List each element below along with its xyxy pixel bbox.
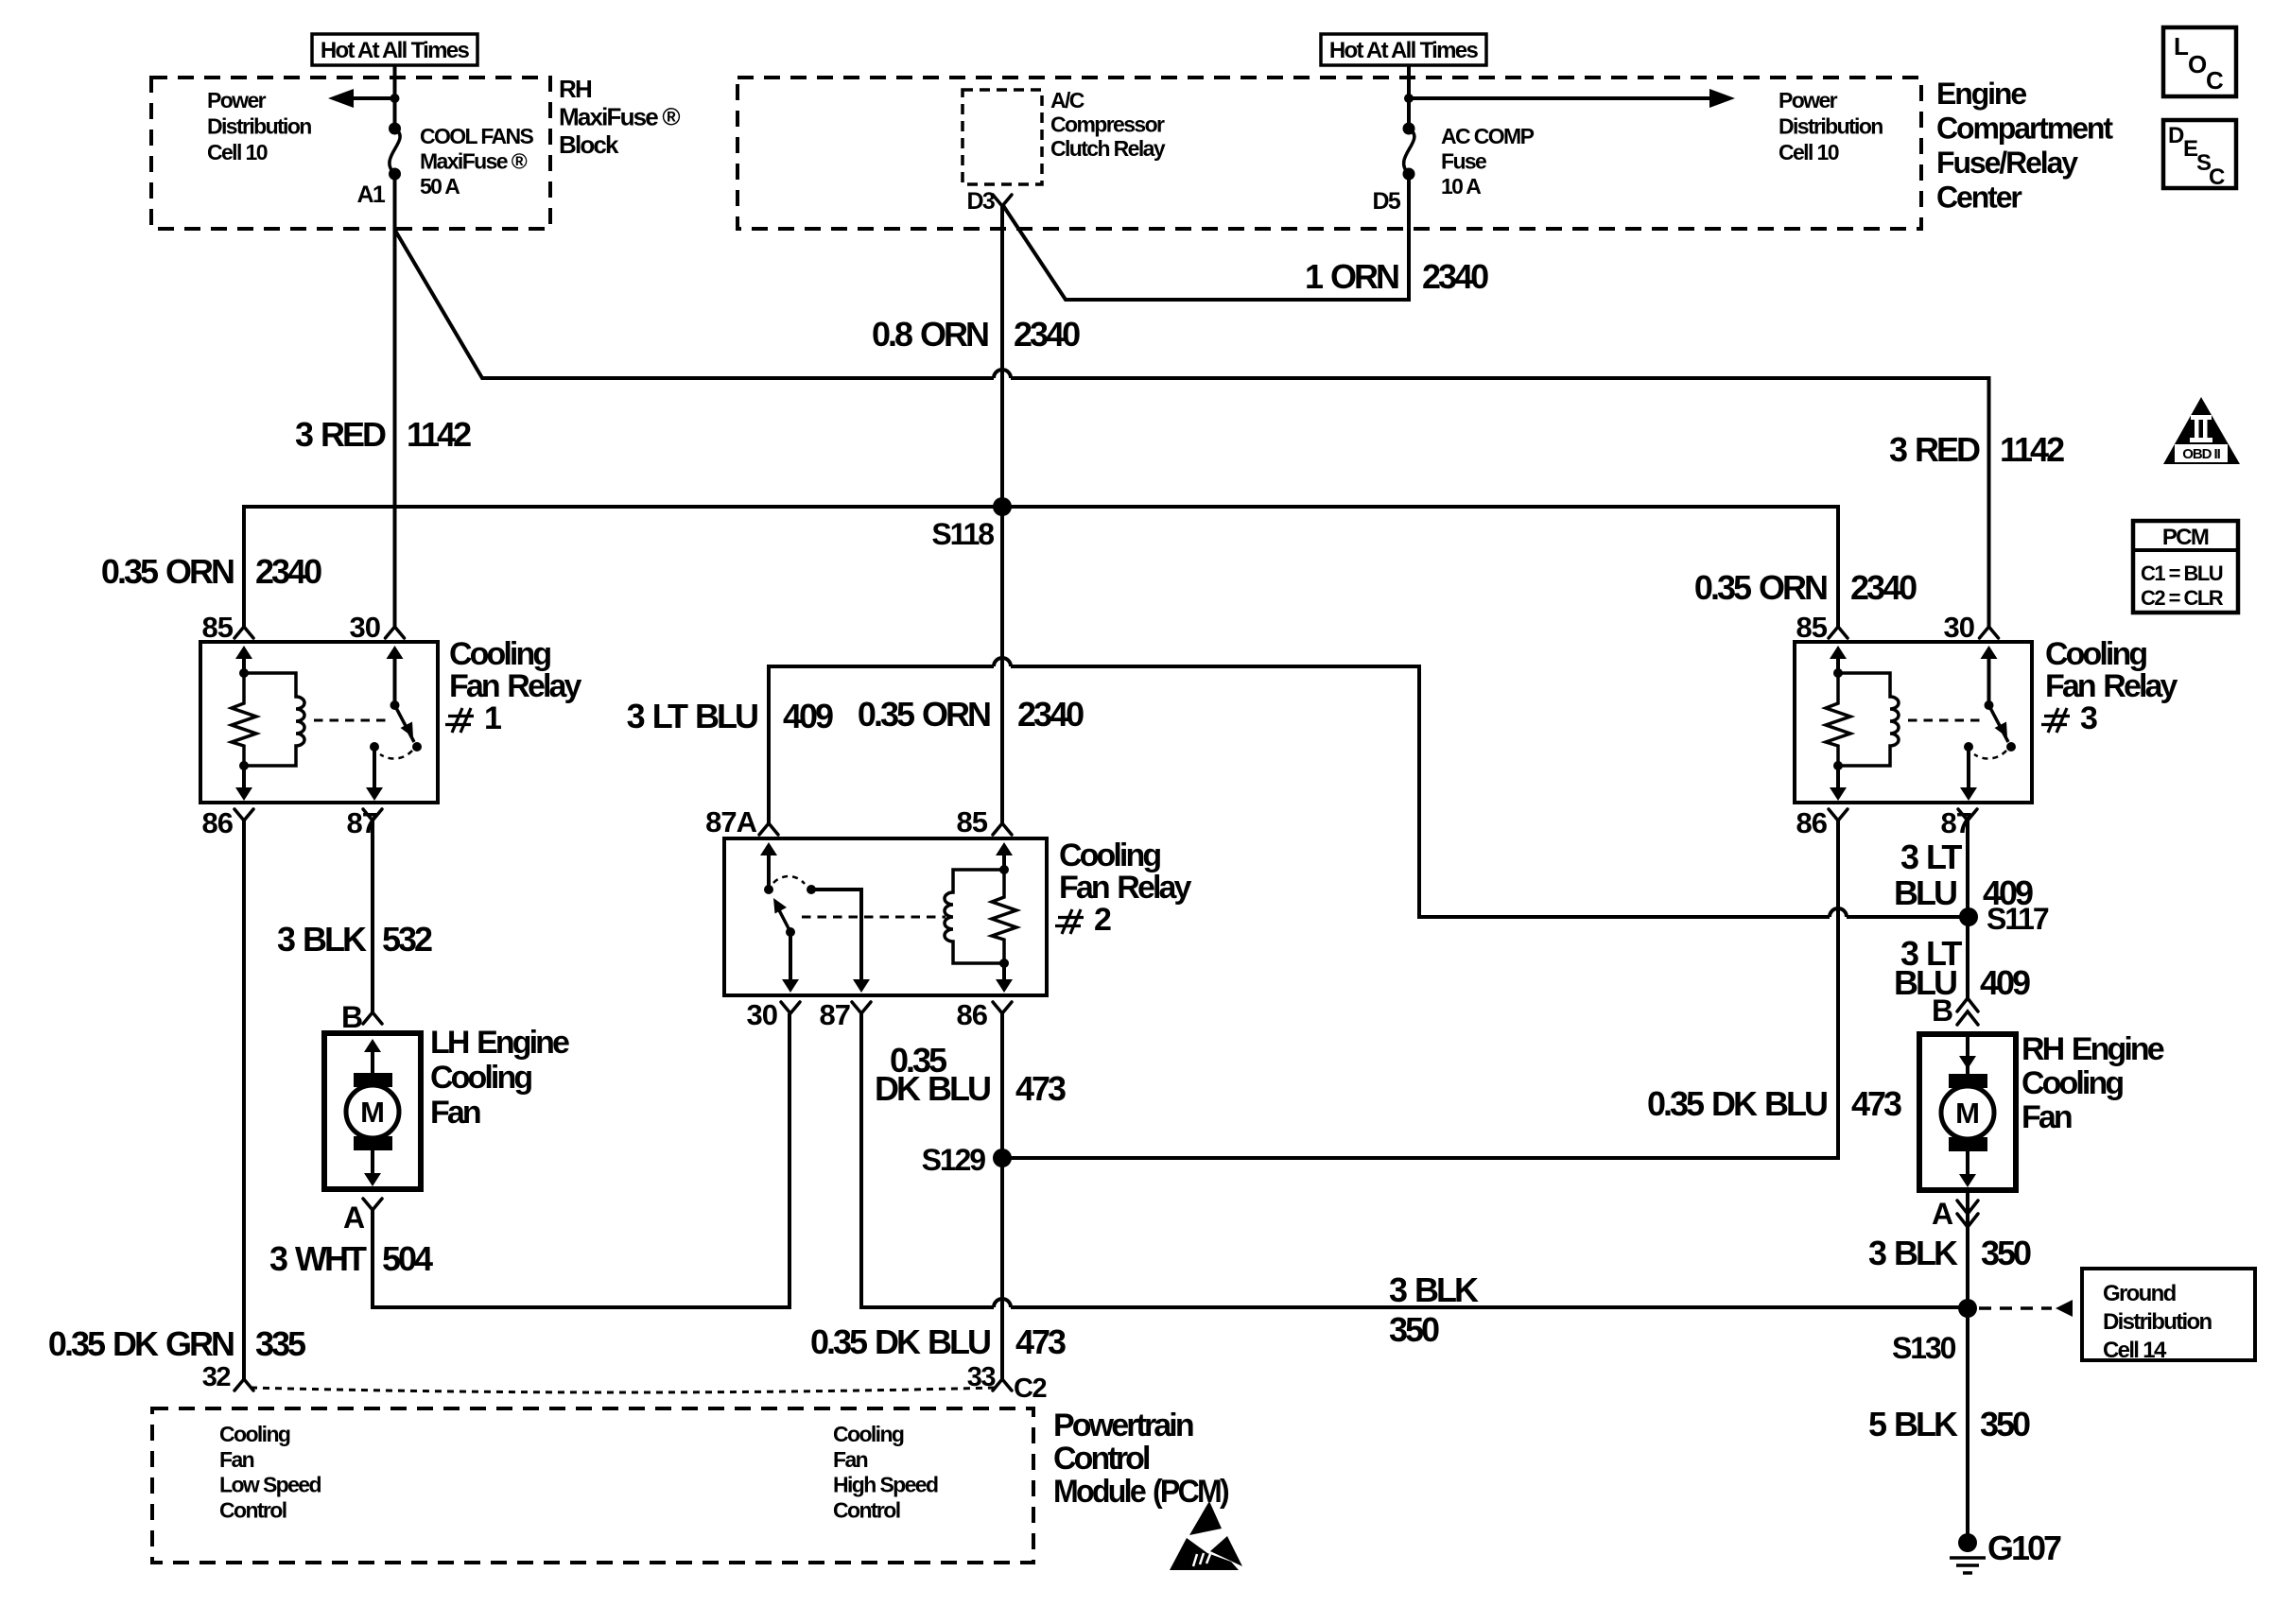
svg-text:350: 350 — [1980, 1405, 2030, 1443]
svg-text:0.35 DK BLU: 0.35 DK BLU — [1647, 1084, 1827, 1123]
wire: 1 ORN 2340 (D5 to D3) — [1002, 174, 1409, 300]
K2 switch common arrow up (87A) — [767, 854, 771, 890]
wire: 5 BLK 350 (S130 to G107) — [1966, 1308, 1969, 1538]
svg-text:3 BLK: 3 BLK — [277, 920, 367, 959]
relay K2: Cooling Fan Relay #2 — [705, 805, 1047, 1031]
svg-text:3 BLK: 3 BLK — [1868, 1234, 1958, 1272]
K1 coil ground arrow down — [242, 766, 246, 789]
svg-text:C: C — [2209, 164, 2225, 190]
K1 contact 87 arrow down — [370, 742, 379, 752]
svg-text:473: 473 — [1015, 1069, 1066, 1108]
motor M2: RH Engine Cooling Fan — [1919, 1034, 2016, 1190]
wire: 3 RED 1142 (A1 down to relay 1 pin 30) — [393, 174, 397, 627]
K1 switch blade — [395, 705, 415, 742]
node S129 — [993, 1149, 1012, 1167]
svg-text:BLU: BLU — [1894, 873, 1956, 912]
K3 pin fork 87 — [1958, 809, 1977, 821]
svg-text:3 LT: 3 LT — [1900, 838, 1962, 876]
svg-text:S118: S118 — [931, 517, 994, 551]
svg-text:1142: 1142 — [2000, 430, 2064, 469]
wire: 0.35 DK BLU 473 (relay2 86 to PCM 33, through S129) — [1000, 1013, 1004, 1379]
svg-text:G107: G107 — [1987, 1529, 2061, 1567]
node S130 — [1958, 1299, 1977, 1318]
svg-text:2340: 2340 — [1014, 315, 1080, 354]
wire: 0.35 ORN 2340 bus from S118 to relay1 85 and relay3 85 — [244, 507, 1838, 627]
K1 actuation dashed link — [314, 719, 386, 722]
pin fork 33 (C2) — [993, 1379, 1012, 1391]
svg-text:350: 350 — [1389, 1310, 1439, 1349]
K1 resistor — [232, 673, 256, 766]
K3 actuation dashed link — [1908, 719, 1980, 722]
svg-text:0.35 ORN: 0.35 ORN — [1694, 568, 1827, 607]
wire: 3 BLK 350 (RH fan A down to S130) — [1966, 1190, 1969, 1308]
svg-text:2340: 2340 — [1017, 695, 1084, 734]
K3 pin fork 86 — [1829, 809, 1848, 821]
box: LOC symbol — [2163, 27, 2236, 96]
svg-text:409: 409 — [1980, 963, 2030, 1002]
svg-text:32: 32 — [202, 1362, 231, 1392]
svg-text:85: 85 — [202, 611, 234, 644]
svg-text:504: 504 — [382, 1239, 433, 1278]
svg-text:D: D — [2168, 123, 2184, 148]
box: PCM connector legend — [2133, 521, 2238, 613]
svg-text:86: 86 — [202, 806, 234, 839]
dashed box: A/C Compressor Clutch Relay — [963, 90, 1042, 184]
K1 switch travel dashed arc — [380, 751, 412, 759]
svg-text:Hot At All Times: Hot At All Times — [1329, 38, 1479, 63]
svg-text:A1: A1 — [357, 181, 386, 208]
svg-text:3 RED: 3 RED — [295, 415, 386, 454]
svg-text:Hot At All Times: Hot At All Times — [321, 38, 470, 63]
svg-text:S130: S130 — [1892, 1331, 1956, 1365]
svg-text:O: O — [2188, 50, 2207, 78]
wire: 0.35 DK BLU 473 branch (S129 to relay3 86) — [1002, 821, 1838, 1158]
dashed box: RH MaxiFuse Block — [151, 78, 550, 229]
svg-text:C1 = BLU: C1 = BLU — [2141, 561, 2223, 585]
svg-text:OBD II: OBD II — [2182, 446, 2220, 462]
svg-text:D3: D3 — [967, 188, 995, 215]
K2 switch travel dashed arc — [773, 876, 805, 884]
K3 pin fork 30 — [1980, 627, 1999, 638]
svg-text:86: 86 — [1796, 806, 1828, 839]
svg-text:3 WHT: 3 WHT — [269, 1239, 367, 1278]
svg-text:30: 30 — [1944, 611, 1974, 644]
wire: dashed to Ground Distribution — [1979, 1306, 2052, 1310]
svg-text:1142: 1142 — [407, 415, 471, 454]
svg-text:85: 85 — [957, 805, 988, 838]
svg-text:C: C — [2206, 66, 2224, 95]
svg-text:350: 350 — [1981, 1234, 2031, 1272]
svg-text:0.35 DK BLU: 0.35 DK BLU — [810, 1322, 990, 1361]
K3 coil ground arrow down — [1836, 766, 1840, 789]
svg-text:2340: 2340 — [1422, 257, 1488, 296]
connector box: Hot At All Times (right) — [1321, 34, 1486, 65]
svg-text:409: 409 — [1983, 873, 2033, 912]
svg-text:2340: 2340 — [255, 552, 321, 591]
wire: 0.35 DK GRN 335 (relay1 86 to PCM 32) — [242, 821, 246, 1379]
K2 coil ground arrow down — [1002, 963, 1006, 981]
wire: battery feed from Hot At All Times to A1 — [393, 65, 397, 129]
svg-text:0.35 ORN: 0.35 ORN — [858, 695, 990, 734]
svg-text:S129: S129 — [922, 1143, 986, 1177]
fuse: COOL FANS MaxiFuse 50 A — [389, 123, 401, 181]
symbol: OBD II triangle — [2163, 397, 2240, 464]
K2 switch blade — [777, 907, 790, 932]
connector box: Hot At All Times (left) — [312, 34, 477, 65]
wire: 3 LT BLU 409 (relay2 87A to S117) — [769, 658, 1969, 917]
svg-text:B: B — [341, 1000, 362, 1034]
svg-text:409: 409 — [783, 697, 833, 735]
svg-text:D5: D5 — [1373, 188, 1401, 215]
K2 common to pin 30 arrow down — [789, 932, 792, 981]
K1 pin fork 30 — [386, 627, 405, 638]
K2 coil feed arrow up — [1002, 854, 1006, 870]
wire: 3 WHT 504 (LH fan A to relay2 30) — [373, 1013, 789, 1307]
K1 pin fork 85 — [234, 627, 253, 638]
K1 pin fork 87 — [363, 809, 382, 821]
svg-text:1 ORN: 1 ORN — [1305, 257, 1398, 296]
dashed box: PCM — [152, 1408, 1033, 1563]
K1 switch common arrow up — [393, 657, 397, 705]
K3 pin fork 85 — [1829, 627, 1848, 638]
K3 coil feed arrow up — [1836, 657, 1840, 673]
node S117 — [1959, 907, 1978, 926]
K1 coil feed arrow up — [242, 657, 246, 673]
symbol: ESD sensitive device — [1170, 1501, 1242, 1570]
wire: feed from Hot At All Times to AC COMP fuse — [1407, 65, 1411, 129]
svg-text:30: 30 — [350, 611, 380, 644]
svg-text:M: M — [1955, 1097, 1980, 1130]
svg-text:C2 = CLR: C2 = CLR — [2141, 586, 2224, 610]
wire: dashed connector line pin 32 to pin 33 — [251, 1388, 996, 1392]
svg-text:3 RED: 3 RED — [1889, 430, 1980, 469]
wire: 0.8 ORN 2340 (D3 down to relay 2 pin 85) — [1000, 206, 1004, 823]
svg-text:0.8 ORN: 0.8 ORN — [872, 315, 988, 354]
K2 coil — [945, 870, 1004, 963]
svg-text:473: 473 — [1015, 1322, 1066, 1361]
relay K3: Cooling Fan Relay #3 — [1795, 611, 2032, 839]
svg-text:C2: C2 — [1014, 1373, 1046, 1404]
K2 actuation dashed link — [802, 916, 946, 919]
arrow: to Power Distribution Cell 10 (right) — [1404, 89, 1735, 108]
svg-text:87: 87 — [820, 998, 850, 1031]
pin fork 32 — [234, 1379, 253, 1391]
K3 coil — [1838, 673, 1899, 766]
wire: 3 LT BLU 409 (relay3 87 down to RH fan B) — [1966, 821, 1969, 998]
box: Ground Distribution Cell 14 — [2082, 1269, 2255, 1363]
K2 pin fork 87 — [852, 1002, 871, 1013]
K3 resistor — [1826, 673, 1850, 766]
svg-text:5 BLK: 5 BLK — [1868, 1405, 1958, 1443]
svg-text:A: A — [343, 1201, 365, 1235]
K1 pin fork 86 — [234, 809, 253, 821]
svg-text:PCM: PCM — [2162, 525, 2209, 550]
K2 pin fork 30 — [781, 1002, 800, 1013]
node S118 — [993, 497, 1012, 516]
K2 resistor — [992, 870, 1016, 963]
svg-text:DK BLU: DK BLU — [875, 1069, 990, 1108]
svg-text:335: 335 — [255, 1324, 306, 1363]
K2 pin fork 85 — [993, 823, 1012, 835]
K1 coil — [244, 673, 304, 766]
relay K1: Cooling Fan Relay #1 — [200, 611, 438, 839]
svg-text:532: 532 — [382, 920, 432, 959]
arrow: to Power Distribution Cell 10 (left) — [328, 89, 400, 108]
wire: 3 BLK 350 bus (relay2 87 to S130) — [861, 1013, 1968, 1307]
K3 switch blade — [1989, 705, 2009, 742]
svg-text:3 BLK: 3 BLK — [1389, 1270, 1479, 1309]
svg-text:30: 30 — [747, 998, 777, 1031]
K2 pin fork 87A — [759, 823, 778, 835]
svg-text:2340: 2340 — [1850, 568, 1917, 607]
pin fork D3 — [993, 195, 1012, 206]
svg-text:87A: 87A — [705, 805, 756, 838]
fuse: AC COMP Fuse 10 A — [1403, 123, 1415, 181]
svg-text:M: M — [360, 1096, 385, 1129]
svg-text:86: 86 — [957, 998, 988, 1031]
svg-text:A: A — [1932, 1197, 1953, 1231]
svg-text:0.35 DK GRN: 0.35 DK GRN — [48, 1324, 234, 1363]
svg-text:0.35 ORN: 0.35 ORN — [101, 552, 234, 591]
K3 switch common arrow up — [1987, 657, 1991, 705]
wire: 3 RED 1142 branch (diagonal + horizontal to relay 3 pin 30) — [395, 230, 1989, 627]
K3 switch travel dashed arc — [1974, 751, 2006, 759]
wire: 3 BLK 532 (relay1 87 to LH fan B) — [371, 821, 374, 1012]
svg-text:3 LT BLU: 3 LT BLU — [627, 697, 757, 735]
svg-text:473: 473 — [1851, 1084, 1901, 1123]
dashed box: Engine Compartment Fuse/Relay Center — [737, 78, 1921, 229]
svg-text:L: L — [2174, 32, 2189, 60]
K2 pin fork 86 — [993, 1002, 1012, 1013]
box: DESC symbol — [2163, 120, 2236, 190]
svg-text:B: B — [1932, 993, 1952, 1028]
svg-text:85: 85 — [1796, 611, 1828, 644]
motor M1: LH Engine Cooling Fan — [324, 1033, 421, 1189]
ground G107 — [1950, 1529, 2061, 1573]
K2 contact NC to pin 87 — [807, 885, 816, 894]
K3 contact 87 arrow down — [1964, 742, 1973, 752]
